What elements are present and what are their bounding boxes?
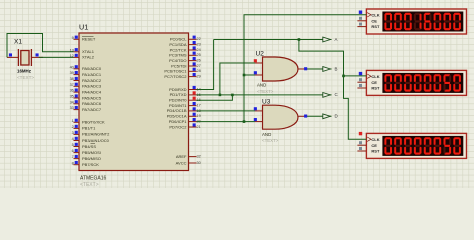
- node U3 output state square (blue): [304, 115, 307, 118]
- pin 26 PC4/TDO (right): [169, 57, 201, 63]
- pin 29 PC7/TOSC2 (right): [164, 73, 200, 79]
- pin 30 AVCC (right): [176, 160, 201, 165]
- svg-text:PC3/TMS: PC3/TMS: [169, 53, 187, 58]
- pin 25 PC3/TMS (right): [169, 52, 201, 58]
- counter timer display U5 body: [366, 70, 466, 95]
- pin 20 PD6/ICP1 (right): [169, 118, 201, 124]
- node U2 output state square (blue): [304, 67, 307, 70]
- svg-text:RST: RST: [371, 86, 380, 91]
- pin 34 PA6/ADC6 (left): [70, 100, 102, 106]
- pin 2 PB1/T1 (left): [72, 125, 96, 131]
- pin CE of display U6: [357, 141, 377, 148]
- label A: [335, 37, 338, 42]
- svg-text:37: 37: [70, 83, 74, 87]
- svg-text:27: 27: [197, 64, 201, 68]
- terminal arrow B: [323, 67, 331, 72]
- pin CE of display U4: [357, 17, 377, 24]
- svg-text:<TEXT>: <TEXT>: [80, 182, 99, 188]
- pin 28 PC6/TOSC1 (right): [164, 68, 200, 74]
- svg-text:C: C: [335, 92, 338, 97]
- svg-text:PA4/ADC4: PA4/ADC4: [82, 89, 102, 94]
- label U3: [262, 99, 271, 106]
- svg-text:AND: AND: [262, 132, 271, 137]
- pin 18 PD4/OC1B (right): [167, 107, 201, 113]
- wire net A horizontal to terminal A: [214, 39, 332, 41]
- svg-text:PC7/TOSC2: PC7/TOSC2: [164, 74, 187, 79]
- svg-text:XTAL1: XTAL1: [82, 49, 95, 54]
- counter timer display U4 body: [366, 9, 466, 34]
- pin 40 PA0/ADC0 (left): [70, 65, 102, 71]
- node junction display2 CLK / display3 riser: [342, 75, 345, 78]
- pin 7 PB6/MISO (left): [72, 155, 101, 161]
- svg-text:34: 34: [70, 100, 74, 104]
- svg-text:U2: U2: [256, 50, 265, 57]
- pin 16 PD2/INT0 (right): [169, 97, 201, 103]
- node: crystal right pin state square: [36, 53, 39, 56]
- svg-text:PC1/SDA: PC1/SDA: [169, 42, 186, 47]
- node junction on net A feeding display2: [298, 38, 301, 41]
- svg-text:23: 23: [197, 43, 201, 47]
- node: display U5 CLK state square: [359, 72, 362, 75]
- svg-text:PD4/OC1B: PD4/OC1B: [167, 108, 187, 113]
- wire PD6 to U3 input 2: [197, 121, 256, 123]
- svg-text:40: 40: [70, 65, 74, 69]
- pin 9 RESET (left): [72, 36, 96, 42]
- svg-text:XTAL2: XTAL2: [82, 55, 95, 60]
- node: display U6 CLK state square: [359, 132, 362, 135]
- wire crystal right to XTAL2: [39, 56, 74, 58]
- wire PD0 to net A (vertical riser x=213.6): [197, 40, 214, 90]
- svg-text:PD3/INT1: PD3/INT1: [169, 103, 187, 108]
- label TEXT placeholder U1: [80, 182, 99, 188]
- label TEXT placeholder U3: [262, 138, 279, 143]
- svg-text:19: 19: [197, 114, 201, 118]
- terminal arrow D: [323, 114, 331, 119]
- svg-text:9: 9: [72, 36, 74, 40]
- terminal arrow C: [323, 93, 331, 98]
- AND gate U2: [255, 57, 307, 81]
- svg-text:CLK: CLK: [371, 12, 379, 17]
- wire U3 output to terminal D: [307, 115, 332, 117]
- svg-text:5: 5: [72, 143, 74, 147]
- svg-text:32: 32: [197, 155, 201, 159]
- pin RST of display U4: [357, 23, 380, 30]
- svg-text:4: 4: [72, 137, 74, 141]
- node junction C/PD2: [231, 94, 234, 97]
- wire staircase down to display3 CLK: [344, 76, 367, 139]
- svg-text:<TEXT>: <TEXT>: [17, 75, 34, 80]
- svg-text:U1: U1: [79, 23, 88, 32]
- wire PD4 to U3 input 1: [197, 110, 256, 112]
- svg-text:25: 25: [197, 53, 201, 57]
- svg-text:6: 6: [72, 149, 74, 153]
- pin 21 PD7/OC2 (right): [169, 123, 200, 129]
- label C: [335, 92, 338, 97]
- svg-text:PB5/MOSI: PB5/MOSI: [82, 150, 101, 155]
- svg-text:PC4/TDO: PC4/TDO: [169, 58, 186, 63]
- svg-text:2: 2: [72, 125, 74, 129]
- svg-text:1: 1: [72, 119, 74, 123]
- node U3 input2 state square (blue): [254, 118, 257, 121]
- node: display U4 CLK state square: [359, 11, 362, 14]
- svg-text:33: 33: [70, 106, 74, 110]
- svg-text:AVCC: AVCC: [176, 160, 187, 165]
- svg-text:PB3/AIN1/OC0: PB3/AIN1/OC0: [82, 138, 110, 143]
- pin 17 PD3/INT1 (right): [169, 102, 201, 108]
- node junction C/v2: [219, 94, 222, 97]
- node: crystal left pin state square: [9, 53, 12, 56]
- pin 3 PB2/AIN0/INT2 (left): [72, 131, 110, 137]
- svg-text:PC0/SCL: PC0/SCL: [170, 37, 187, 42]
- svg-text:21: 21: [197, 125, 201, 129]
- pin CE of display U5: [357, 78, 377, 85]
- svg-text:AREF: AREF: [176, 154, 187, 159]
- svg-text:CE: CE: [371, 18, 377, 23]
- svg-text:7: 7: [72, 155, 74, 159]
- svg-text:CE: CE: [371, 143, 377, 148]
- label U1: [79, 23, 88, 32]
- svg-text:ATMEGA16: ATMEGA16: [80, 176, 107, 182]
- svg-text:17: 17: [197, 104, 201, 108]
- svg-text:A: A: [335, 37, 338, 42]
- svg-text:PA0/ADC0: PA0/ADC0: [82, 66, 102, 71]
- value label digits 00000050 on display U6: [384, 137, 461, 154]
- wire PD1 to net C horizontal: [197, 94, 332, 96]
- svg-text:PA2/ADC2: PA2/ADC2: [82, 78, 102, 83]
- wire U2 output to terminal B: [307, 68, 332, 70]
- svg-text:RST: RST: [371, 149, 380, 154]
- pin 15 PD1/TXD (right): [170, 91, 201, 97]
- svg-text:PC6/TOSC1: PC6/TOSC1: [164, 69, 187, 74]
- svg-text:PB1/T1: PB1/T1: [82, 126, 96, 131]
- node U3 input1 state square (blue): [254, 107, 257, 110]
- counter timer display U6 body: [366, 133, 466, 158]
- value label ATMEGA16: [80, 176, 107, 182]
- svg-text:PC2/TCK: PC2/TCK: [170, 47, 187, 52]
- label TEXT placeholder X1: [17, 75, 34, 80]
- svg-text:8: 8: [72, 161, 74, 165]
- terminal arrow A: [323, 37, 331, 42]
- svg-text:28: 28: [197, 69, 201, 73]
- label B: [335, 66, 338, 71]
- svg-text:PA5/ADC5: PA5/ADC5: [82, 95, 102, 100]
- crystal X1: [7, 49, 43, 66]
- pin 12 XTAL2 (left): [70, 54, 95, 60]
- value label 16MHz: [17, 69, 32, 74]
- svg-text:<TEXT>: <TEXT>: [262, 138, 279, 143]
- svg-text:PA1/ADC1: PA1/ADC1: [82, 72, 102, 77]
- svg-text:U3: U3: [262, 99, 271, 106]
- svg-text:PB4/SS: PB4/SS: [82, 144, 96, 149]
- pin CLK of display U6: [367, 137, 380, 142]
- svg-text:CLK: CLK: [371, 74, 379, 79]
- pin 8 PB7/SCK (left): [72, 161, 100, 167]
- pin 27 PC5/TDI (right): [171, 62, 201, 68]
- svg-text:PD1/TXD: PD1/TXD: [170, 92, 187, 97]
- node U2 input2 state square (blue): [254, 71, 257, 74]
- svg-text:22: 22: [197, 37, 201, 41]
- microcontroller U1 ATMEGA16 body: [79, 33, 189, 171]
- pin 5 PB4/SS (left): [72, 143, 97, 149]
- svg-text:PD7/OC2: PD7/OC2: [169, 124, 187, 129]
- node junction v3/U2.in2: [243, 74, 246, 77]
- node U2 input1 state square (red): [254, 59, 257, 62]
- label X1: [14, 39, 22, 46]
- wire v3 branch to U2 input 2: [244, 74, 255, 76]
- pin RST of display U5: [357, 84, 380, 91]
- value label AND (U3): [262, 132, 271, 137]
- svg-text:36: 36: [70, 89, 74, 93]
- value label AND (U2): [257, 82, 266, 87]
- wire v2 up to U2 input 1: [220, 63, 255, 95]
- pin 6 PB5/MOSI (left): [72, 149, 101, 155]
- svg-text:16MHz: 16MHz: [17, 69, 32, 74]
- label TEXT placeholder U2: [257, 89, 274, 94]
- svg-text:PD0/RXD: PD0/RXD: [169, 87, 186, 92]
- pin 35 PA5/ADC5 (left): [70, 94, 102, 100]
- svg-text:35: 35: [70, 95, 74, 99]
- label D: [335, 114, 338, 119]
- grid background: [0, 0, 474, 188]
- pin 33 PA7/ADC7 (left): [70, 106, 102, 112]
- svg-text:CLK: CLK: [371, 137, 379, 142]
- svg-text:PA6/ADC6: PA6/ADC6: [82, 101, 102, 106]
- pin 4 PB3/AIN1/OC0 (left): [72, 137, 110, 143]
- pin 36 PA4/ADC4 (left): [70, 89, 102, 95]
- pin 19 PD5/OC1A (right): [167, 113, 201, 119]
- pin 1 PB0/T0/XCK (left): [72, 119, 105, 125]
- node junction v3/PD6: [243, 120, 246, 123]
- pin 24 PC2/TCK (right): [170, 46, 201, 52]
- svg-text:PB0/T0/XCK: PB0/T0/XCK: [82, 120, 105, 125]
- svg-text:26: 26: [197, 59, 201, 63]
- svg-text:PB6/MISO: PB6/MISO: [82, 156, 101, 161]
- svg-text:B: B: [335, 66, 338, 71]
- svg-text:39: 39: [70, 71, 74, 75]
- label U2: [256, 50, 265, 57]
- svg-text:PA7/ADC7: PA7/ADC7: [82, 107, 102, 112]
- pin 38 PA2/ADC2 (left): [70, 77, 102, 83]
- pin 23 PC1/SDA (right): [169, 41, 200, 47]
- value label digits 00000050 on display U5: [384, 74, 461, 91]
- svg-text:24: 24: [197, 48, 201, 52]
- svg-text:PA3/ADC3: PA3/ADC3: [82, 84, 102, 89]
- svg-text:<TEXT>: <TEXT>: [257, 89, 274, 94]
- svg-text:3: 3: [72, 131, 74, 135]
- svg-text:30: 30: [197, 161, 201, 165]
- svg-text:PB2/AIN0/INT2: PB2/AIN0/INT2: [82, 132, 110, 137]
- svg-text:RST: RST: [371, 24, 380, 29]
- pin CLK of display U4: [367, 12, 380, 17]
- svg-text:PB7/SCK: PB7/SCK: [82, 162, 99, 167]
- svg-text:X1: X1: [14, 39, 22, 46]
- pin 32 AREF (right): [176, 154, 201, 159]
- svg-text:CE: CE: [371, 80, 377, 85]
- pin 14 PD0/RXD (right): [169, 86, 201, 92]
- pin CLK of display U5: [367, 74, 380, 79]
- svg-text:PD6/ICP1: PD6/ICP1: [169, 119, 188, 124]
- AND gate U3: [255, 105, 307, 129]
- pin RST of display U6: [357, 147, 380, 154]
- svg-text:D: D: [335, 114, 338, 119]
- svg-text:PC5/TDI: PC5/TDI: [171, 63, 186, 68]
- pin 22 PC0/SCL (right): [170, 36, 201, 42]
- svg-text:RESET: RESET: [82, 37, 96, 42]
- svg-text:29: 29: [197, 75, 201, 79]
- svg-text:PD2/INT0: PD2/INT0: [169, 98, 187, 103]
- wire PD2 jog up to net C: [197, 95, 233, 100]
- pin 37 PA3/ADC3 (left): [70, 83, 102, 89]
- pin 13 XTAL1 (left): [70, 48, 95, 54]
- wire crystal left to XTAL1 (up-over-down): [7, 34, 74, 58]
- pin 39 PA1/ADC1 (left): [70, 71, 102, 77]
- value label digits 00016000 on display U4: [384, 13, 461, 30]
- svg-text:PD5/OC1A: PD5/OC1A: [167, 114, 187, 119]
- wire staircase from net A to display2 CLK: [299, 40, 367, 76]
- svg-text:AND: AND: [257, 82, 266, 87]
- wire v3 display1 CLK / U2 input 2 / PD6 riser: [244, 15, 366, 122]
- svg-text:38: 38: [70, 77, 74, 81]
